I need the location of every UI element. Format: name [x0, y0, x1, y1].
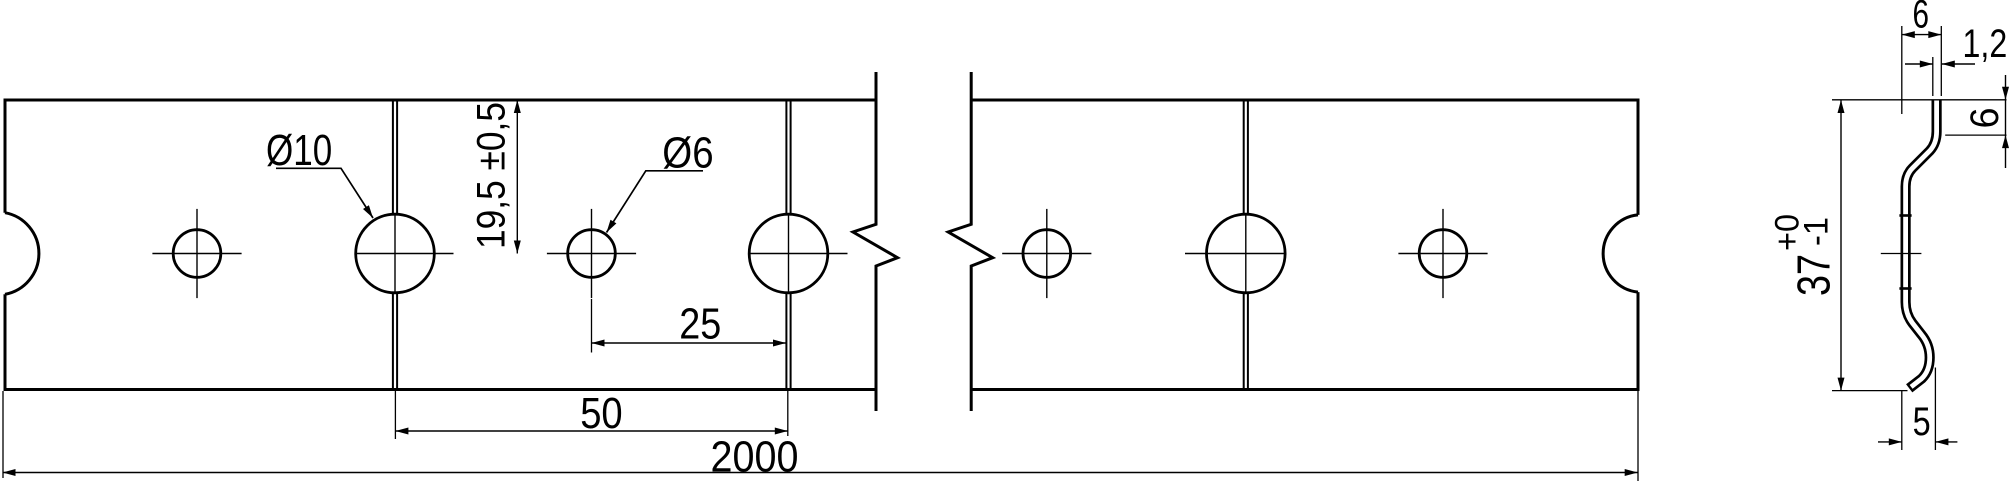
- profile joggle tick (upper): [1899, 214, 1911, 217]
- strip bottom edge (left of break): [4, 388, 877, 391]
- svg-text:19,5 ±0,5: 19,5 ±0,5: [470, 102, 514, 249]
- strip right end edge (upper): [1637, 99, 1640, 215]
- strip left end edge (lower): [4, 294, 7, 391]
- profile bottom extension line: [1832, 390, 1908, 392]
- svg-text:6: 6: [1913, 0, 1930, 37]
- hole Ø10 #3 with centerlines: [1207, 214, 1286, 293]
- svg-text:2000: 2000: [711, 432, 799, 481]
- segment joint seam 3 (double line): [1243, 100, 1245, 214]
- svg-text:5: 5: [1913, 400, 1931, 444]
- profile section sheet (outer stroke): [1906, 100, 1937, 388]
- dimension 25: [591, 299, 593, 353]
- hole Ø10 #2 with centerlines: [749, 214, 828, 293]
- break line (right): [948, 72, 993, 411]
- profile top extension line: [1832, 99, 2007, 101]
- hole Ø10 #1 with centerlines: [356, 214, 435, 293]
- segment joint seam 2 (double line): [785, 100, 787, 214]
- svg-text:-1: -1: [1797, 217, 1835, 246]
- right end half-hole notch: [1603, 215, 1638, 292]
- svg-text:50: 50: [580, 389, 623, 438]
- hole Ø6 #3 with centerlines: [1023, 230, 1071, 278]
- strip right end edge (lower): [1637, 292, 1640, 391]
- svg-text:6: 6: [1963, 108, 2007, 129]
- strip left end edge (upper): [4, 99, 7, 213]
- dimension 6 (top width): [1901, 26, 1903, 114]
- hole Ø6 #2 with centerlines: [568, 230, 616, 278]
- dimension 50: [394, 391, 396, 439]
- left end half-hole notch: [5, 213, 39, 295]
- svg-text:25: 25: [679, 300, 721, 349]
- profile joggle tick (lower): [1899, 287, 1911, 290]
- segment joint seam 1 (double line): [392, 100, 394, 214]
- dimension 37 +0/-1 (profile height): [1840, 100, 1842, 391]
- svg-text:Ø6: Ø6: [662, 129, 713, 178]
- hole Ø6 #1 with centerlines: [173, 230, 221, 278]
- dimension 2000: [2, 391, 4, 478]
- dimension 6 (top flange offset, right): [1945, 134, 2006, 136]
- leader line Ø10: [276, 168, 373, 218]
- leader line Ø6: [607, 171, 704, 233]
- profile section sheet (inner white): [1906, 100, 1937, 387]
- hole Ø6 #4 with centerlines: [1419, 230, 1467, 278]
- dimension 5 (bottom hook offset): [1901, 391, 1903, 450]
- svg-text:37: 37: [1787, 254, 1839, 296]
- strip top edge (left of break): [4, 99, 877, 102]
- dimension 1,2 (sheet thickness): [1932, 57, 1934, 96]
- dimension 19,5 ±0,5 (vertical): [516, 100, 518, 254]
- svg-text:1,2: 1,2: [1963, 22, 2008, 66]
- profile centerline: [1881, 253, 1922, 255]
- svg-text:Ø10: Ø10: [266, 126, 332, 175]
- break line (left): [853, 72, 898, 411]
- strip top edge (right of break): [971, 99, 1639, 102]
- strip bottom edge (right of break): [971, 388, 1639, 391]
